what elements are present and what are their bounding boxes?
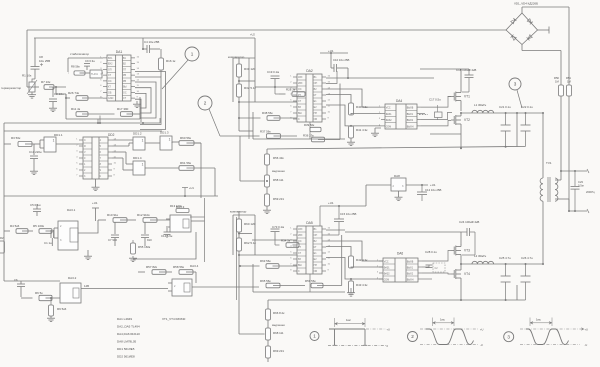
svg-text:ВЫХВ: ВЫХВ xyxy=(407,108,414,110)
ground DA1 pin xyxy=(136,101,138,102)
wire return rail y147 xyxy=(267,146,526,149)
resistor R6 xyxy=(39,295,52,300)
wire DA2 bottom stubs xyxy=(309,122,311,139)
resistor R61 xyxy=(179,166,194,171)
svg-text:ОП: ОП xyxy=(314,82,318,85)
svg-text:C24 100нФ 2кВ: C24 100нФ 2кВ xyxy=(459,220,479,224)
svg-text:R4 5к6: R4 5к6 xyxy=(10,224,20,228)
resistor R17 xyxy=(121,112,133,117)
svg-text:DA4,DA6 IR2110: DA4,DA6 IR2110 xyxy=(117,332,140,336)
wire return rail y298 xyxy=(268,299,526,301)
waveform 1 circle xyxy=(310,332,319,341)
wire chain drop x268 xyxy=(267,300,269,309)
svg-text:ВЫ: ВЫ xyxy=(298,264,302,267)
pwm controller DA5 DIP xyxy=(297,226,322,274)
svg-text:СТ: СТ xyxy=(123,97,127,100)
output terminal top xyxy=(587,169,589,173)
svg-text:ВЫ: ВЫ xyxy=(298,112,302,115)
svg-text:DA2_DA5 TL494: DA2_DA5 TL494 xyxy=(117,325,140,329)
wire DA1 bus loop 2 xyxy=(135,77,161,125)
svg-text:L1 30мГн: L1 30мГн xyxy=(474,103,487,107)
svg-text:VT4: VT4 xyxy=(464,272,470,276)
svg-text:C23: C23 xyxy=(578,180,583,184)
resistor R28 xyxy=(292,92,305,97)
svg-text:+U: +U xyxy=(387,328,391,332)
svg-text:ОП: ОП xyxy=(314,234,318,237)
wire comparator2 inner rail xyxy=(236,217,238,300)
resistor R16 xyxy=(160,49,162,58)
bootstrap box DA4 xyxy=(435,112,443,118)
svg-text:TV1: TV1 xyxy=(546,161,552,165)
resistor R10 xyxy=(113,218,127,223)
resistor R42 xyxy=(326,247,351,257)
wire DA3.1 out xyxy=(78,220,98,233)
svg-text:медленно: медленно xyxy=(272,169,285,173)
ground under R55 xyxy=(132,256,134,258)
svg-text:+U1: +U1 xyxy=(430,183,436,187)
logic gate DD1.2 xyxy=(133,137,145,150)
resistor R62 xyxy=(237,238,242,251)
svg-text:L2 30мГн: L2 30мГн xyxy=(474,254,487,258)
resistor R30 xyxy=(237,64,242,77)
svg-text:R34 3к: R34 3к xyxy=(281,239,291,243)
wire bridge top to rail xyxy=(521,7,523,13)
resistor R37 xyxy=(267,134,281,139)
wire x249 drop xyxy=(248,58,250,139)
resistor R68 xyxy=(267,320,269,328)
svg-text:ОБ: ОБ xyxy=(108,91,112,94)
wire DD1.2 out xyxy=(145,142,160,144)
svg-text:1мс: 1мс xyxy=(536,318,541,322)
wire output y113 xyxy=(461,112,543,114)
wire R50 down to out1 xyxy=(560,96,562,171)
svg-text:C1 1н: C1 1н xyxy=(44,241,52,245)
svg-text:R8 56к: R8 56к xyxy=(71,65,80,69)
svg-text:C12 10u 25В: C12 10u 25В xyxy=(425,188,441,192)
svg-text:DA5: DA5 xyxy=(306,221,313,225)
wire VT1 gate xyxy=(448,96,451,99)
resistor R32 xyxy=(237,84,242,97)
resistor R12 xyxy=(143,218,157,223)
svg-text:ВЫХ2: ВЫХ2 xyxy=(407,274,414,276)
wire DA6 to VT4 gate xyxy=(422,273,451,274)
svg-text:TL431: TL431 xyxy=(91,73,98,76)
wire R51 down to out2 xyxy=(568,96,570,211)
wire output mid drop x517 xyxy=(516,113,518,147)
wire DA4 to VT2 gate xyxy=(421,121,451,126)
capacitor C10 xyxy=(333,64,335,72)
svg-text:DD1 561ЛЕ5: DD1 561ЛЕ5 xyxy=(117,347,135,351)
waveform 2 circle xyxy=(408,332,418,342)
svg-text:COM: COM xyxy=(384,280,389,282)
svg-text:VCC: VCC xyxy=(386,108,391,110)
svg-text:C10 10u 25В: C10 10u 25В xyxy=(333,58,349,62)
wire bus y123 xyxy=(4,122,160,124)
svg-text:стабилизатор: стабилизатор xyxy=(70,52,89,56)
svg-text:VT2: VT2 xyxy=(464,118,470,122)
svg-text:2ВХ: 2ВХ xyxy=(298,82,303,85)
capacitor C2 xyxy=(52,87,54,97)
svg-text:+U1: +U1 xyxy=(189,186,194,190)
svg-text:ОС: ОС xyxy=(298,88,302,91)
wire inner top rail xyxy=(34,37,255,39)
wire top rail +310V to bridge xyxy=(27,29,506,31)
svg-text:DA1: DA1 xyxy=(116,50,123,54)
resistor R58 xyxy=(266,165,268,175)
wire regulator feed xyxy=(365,185,367,206)
svg-text:R68 111: R68 111 xyxy=(273,331,284,335)
svg-text:VT1: VT1 xyxy=(464,95,470,99)
resistor R51 xyxy=(567,85,572,96)
svg-text:R9 5к6: R9 5к6 xyxy=(57,307,67,311)
resistor R65 xyxy=(266,283,280,288)
svg-text:DA1 L4949: DA1 L4949 xyxy=(117,317,132,321)
wire DA1 bus loop 5 xyxy=(135,93,146,108)
waveform 3 circle xyxy=(504,332,514,342)
svg-text:медленно: медленно xyxy=(272,323,285,327)
resistor R59b xyxy=(311,283,323,288)
wire x201 drop xyxy=(200,143,202,198)
svg-text:ВХ2: ВХ2 xyxy=(108,63,113,66)
wire section border y196 xyxy=(4,195,218,197)
svg-text:R57 82к: R57 82к xyxy=(146,265,158,269)
svg-text:R60 56к: R60 56к xyxy=(180,136,192,140)
svg-text:VCC: VCC xyxy=(384,262,389,264)
svg-text:R55 160к: R55 160к xyxy=(138,245,151,249)
capacitor C13 xyxy=(33,144,35,155)
op-amp U DA1 DIP xyxy=(107,55,131,101)
svg-text:C17 0.5u: C17 0.5u xyxy=(429,98,441,102)
svg-text:СТ: СТ xyxy=(298,100,302,103)
wire C4 feed xyxy=(142,38,144,49)
resistor R50 xyxy=(559,85,564,96)
svg-text:R12 910к: R12 910к xyxy=(137,213,150,217)
svg-text:ВЫХН: ВЫХН xyxy=(407,126,414,128)
callout pointer 3 xyxy=(517,90,522,108)
svg-text:R17 390: R17 390 xyxy=(117,107,129,111)
ground under DA3.1 xyxy=(87,250,89,254)
svg-text:ОС: ОС xyxy=(123,91,127,94)
svg-text:1мс: 1мс xyxy=(346,318,351,322)
resistor R34 xyxy=(286,243,299,248)
wire saw drop x240 xyxy=(239,136,241,181)
svg-text:ВЫХ1: ВЫХ1 xyxy=(407,114,414,116)
svg-text:R61 56к: R61 56к xyxy=(180,161,192,165)
svg-text:C4 10н 25В: C4 10н 25В xyxy=(144,40,159,44)
svg-text:COM: COM xyxy=(386,126,391,128)
svg-text:R38 56к: R38 56к xyxy=(262,111,273,115)
svg-text:2: 2 xyxy=(204,101,207,106)
svg-text:R3 56к: R3 56к xyxy=(11,136,21,140)
svg-text:VT3: VT3 xyxy=(464,249,470,253)
svg-text:DD2: DD2 xyxy=(108,133,115,137)
callout pointer 1 xyxy=(162,60,188,89)
wire mid node xyxy=(460,103,462,111)
svg-text:ОП: ОП xyxy=(108,68,112,71)
wire comparator chain xyxy=(238,58,240,64)
svg-text:ФАЗ2: ФАЗ2 xyxy=(386,119,393,122)
resistor R13 xyxy=(176,209,189,213)
wire secondary top xyxy=(555,179,561,181)
wire DA6 pin y280 stub xyxy=(422,278,432,280)
svg-text:ФАЗ2: ФАЗ2 xyxy=(384,273,391,276)
svg-text:R42 4.3к: R42 4.3к xyxy=(356,258,368,262)
wire DA2 pin to DA4 pin1 xyxy=(326,89,381,107)
resistor R59 xyxy=(266,187,268,194)
svg-text:C73 0.1м: C73 0.1м xyxy=(272,225,284,229)
resistor R56 xyxy=(266,149,268,154)
resistor R58a xyxy=(179,270,193,275)
thermistor RK1 xyxy=(29,82,35,92)
svg-text:+U2: +U2 xyxy=(250,33,255,37)
svg-text:DD1.3: DD1.3 xyxy=(160,131,169,135)
transistor VT3 xyxy=(451,250,454,252)
resistor R38 xyxy=(267,116,280,121)
wire chain down xyxy=(238,102,240,131)
svg-text:терморезистор: терморезистор xyxy=(1,86,22,90)
ground under C13 xyxy=(33,169,35,171)
svg-text:1: 1 xyxy=(169,137,171,141)
svg-text:ОС: ОС xyxy=(108,80,112,83)
pwm controller DA2 DIP xyxy=(297,74,322,122)
svg-text:РВ: РВ xyxy=(123,74,127,77)
resistor R41 xyxy=(350,125,352,127)
svg-text:C15 10u 25В: C15 10u 25В xyxy=(340,212,356,216)
wire DD1.3 to R60 xyxy=(172,141,179,143)
logic gate DD1.1 xyxy=(44,137,56,152)
transistor VT2 xyxy=(451,119,454,121)
wire feedback DA3.3 xyxy=(133,232,196,259)
svg-text:VT1_VT4 IRF840: VT1_VT4 IRF840 xyxy=(162,317,186,321)
wire DA1 pin16 drop xyxy=(135,99,141,122)
transistor VT4 xyxy=(451,273,454,275)
svg-text:1: 1 xyxy=(142,138,144,142)
svg-text:DA3.1: DA3.1 xyxy=(67,208,76,212)
resistor R5 xyxy=(39,229,52,234)
svg-text:R40 4.3к: R40 4.3к xyxy=(356,105,368,109)
power stub on y196 xyxy=(182,187,188,189)
svg-text:R59 231: R59 231 xyxy=(273,197,284,201)
svg-text:R13 100к: R13 100к xyxy=(170,204,183,208)
wire stabilizer top xyxy=(68,57,103,59)
wire left rail xyxy=(3,123,5,196)
svg-text:ФАЗ1: ФАЗ1 xyxy=(386,113,393,116)
svg-text:R56 43к: R56 43к xyxy=(273,156,284,160)
svg-text:DA2: DA2 xyxy=(306,69,313,73)
resistor R60 xyxy=(179,141,194,146)
svg-text:R: R xyxy=(84,145,86,148)
callout circle 1 xyxy=(185,47,199,61)
svg-text:DA3.4: DA3.4 xyxy=(190,264,199,268)
svg-text:R26 74к: R26 74к xyxy=(68,91,80,95)
svg-text:R11 4к: R11 4к xyxy=(71,107,81,111)
svg-text:R65 56к: R65 56к xyxy=(260,279,271,283)
node bus junction xyxy=(99,116,101,124)
resistor R11 xyxy=(76,112,88,117)
svg-text:ВХ: ВХ xyxy=(298,106,301,109)
wire x255 drop xyxy=(254,38,256,102)
svg-text:C5 0.1м: C5 0.1м xyxy=(30,203,41,207)
wire x215 drop xyxy=(214,168,216,196)
svg-text:R69 231: R69 231 xyxy=(273,349,284,353)
capacitor C8 xyxy=(31,66,40,68)
svg-text:ОБ: ОБ xyxy=(314,118,318,121)
resistor R43 xyxy=(350,279,352,281)
svg-text:R51: R51 xyxy=(566,76,571,80)
wire primary bottom xyxy=(542,201,544,264)
svg-text:1ВХ: 1ВХ xyxy=(298,228,303,231)
wire y255 to DA5 xyxy=(239,254,297,256)
wire y87 to DA2 xyxy=(255,86,297,88)
wire DA1 bus loop 3 xyxy=(135,82,156,118)
svg-text:910: 910 xyxy=(147,238,152,242)
wire DA3.3 out xyxy=(191,220,205,222)
svg-text:C6: C6 xyxy=(14,278,18,282)
wire R61 to x215 xyxy=(187,167,216,169)
svg-text:R5 100к: R5 100к xyxy=(33,224,45,228)
svg-text:ПТ: ПТ xyxy=(123,68,127,71)
capacitor C11 xyxy=(144,222,146,234)
svg-text:DA3.2: DA3.2 xyxy=(68,276,77,280)
svg-text:1: 1 xyxy=(313,334,316,339)
ground under DD2 xyxy=(95,179,97,185)
svg-text:2ВХ: 2ВХ xyxy=(298,234,303,237)
svg-text:ВЫХ1: ВЫХ1 xyxy=(407,268,414,270)
svg-text:компаратор: компаратор xyxy=(228,55,245,59)
svg-text:ВЫХН: ВЫХН xyxy=(407,280,414,282)
wire comparator1 left edge xyxy=(232,58,234,102)
svg-text:2000Гц: 2000Гц xyxy=(586,190,595,194)
svg-text:R39 56к: R39 56к xyxy=(304,123,315,127)
svg-text:1: 1 xyxy=(142,162,144,166)
svg-text:ОБ: ОБ xyxy=(314,270,318,273)
wire riser x204 xyxy=(204,198,206,262)
wire bus stub xyxy=(97,119,99,123)
svg-text:PB: PB xyxy=(123,80,127,83)
wire secondary bottom xyxy=(555,198,569,200)
wire DD2 to DD1.2 xyxy=(112,139,133,141)
svg-text:DD1.2: DD1.2 xyxy=(133,132,142,136)
callout circle 3 xyxy=(509,78,521,90)
svg-text:СТ: СТ xyxy=(298,252,302,255)
svg-text:+U1: +U1 xyxy=(92,201,98,205)
svg-text:R50: R50 xyxy=(554,76,559,80)
resistor R69 xyxy=(267,340,269,346)
wire DA2 out rail y78 xyxy=(326,77,434,79)
svg-text:2: 2 xyxy=(411,334,414,339)
wire DA8 out xyxy=(406,184,428,186)
wire DD2 to DD1.4 xyxy=(112,151,126,153)
svg-text:C28 0.1u: C28 0.1u xyxy=(425,250,437,254)
logic gate DD1.3 xyxy=(160,136,172,150)
wire y102 to DA2 xyxy=(239,101,297,103)
resistor R57 xyxy=(152,270,166,275)
wire VT2 source down xyxy=(460,127,462,150)
svg-text:С: С xyxy=(84,139,86,142)
svg-text:R2: R2 xyxy=(0,236,4,240)
svg-text:1мс: 1мс xyxy=(440,318,445,322)
svg-text:R16 1к: R16 1к xyxy=(166,59,176,63)
svg-text:C25 4.7u: C25 4.7u xyxy=(499,256,511,260)
wire DD1.4 to R61 xyxy=(145,167,179,169)
wire right rail x569 xyxy=(568,7,570,85)
resistor R66 xyxy=(266,309,271,320)
callout pointer 2 xyxy=(209,109,220,136)
wire DA1 bus loop 1 xyxy=(135,72,166,130)
wire DA4 out to VT1 gate xyxy=(421,97,451,108)
svg-text:VD1_VD4 КД226Б: VD1_VD4 КД226Б xyxy=(514,2,538,6)
ground DA4 xyxy=(374,128,376,131)
svg-text:C26 4.7u: C26 4.7u xyxy=(521,256,533,260)
svg-text:R37 56к: R37 56к xyxy=(260,130,271,134)
svg-text:R43 4.3к: R43 4.3к xyxy=(356,283,368,287)
svg-text:ПН: ПН xyxy=(314,112,318,115)
svg-text:DD1.4: DD1.4 xyxy=(133,156,142,160)
wire VT3 drain rail xyxy=(345,231,461,233)
wire bus y131 xyxy=(4,130,162,132)
wire R60 to x201 xyxy=(187,142,202,144)
svg-text:ПН: ПН xyxy=(314,264,318,267)
snubber dashed box xyxy=(433,263,445,272)
wire mid drop x517 bottom xyxy=(516,285,518,300)
wire VT1 drain rail xyxy=(420,68,461,70)
node A xyxy=(55,86,57,88)
wire DA3.4 out row xyxy=(273,285,305,287)
svg-text:ВЫХ2: ВЫХ2 xyxy=(407,120,414,122)
svg-text:ВХ: ВХ xyxy=(298,258,301,261)
svg-text:R58 56к: R58 56к xyxy=(173,265,185,269)
svg-text:R66 8.2к: R66 8.2к xyxy=(273,311,285,315)
wire y134 DA4 return xyxy=(430,133,461,135)
ground under R9 xyxy=(50,316,52,318)
ground under DA8 xyxy=(398,191,400,195)
capacitor C4 xyxy=(146,45,148,53)
counter DD2 xyxy=(83,137,108,179)
resistor R7 xyxy=(44,85,54,90)
svg-text:+U: +U xyxy=(585,327,589,331)
wire DA5 out rail xyxy=(326,229,345,231)
wire R60 R62 junction xyxy=(239,233,252,235)
capacitor C15 xyxy=(338,205,340,207)
callout circle 2 xyxy=(198,96,212,110)
wire DA2 pin to DA4 pin3 xyxy=(326,105,381,126)
svg-text:+U1: +U1 xyxy=(328,201,334,205)
wire block bottom y139 xyxy=(253,138,345,140)
ground under R43 xyxy=(350,288,352,291)
svg-text:1: 1 xyxy=(191,52,194,57)
svg-text:R60 120: R60 120 xyxy=(244,222,256,226)
svg-text:ОС: ОС xyxy=(298,240,302,243)
ground under C2 xyxy=(52,106,54,108)
wire top into DA3.2 xyxy=(3,196,5,281)
svg-text:R62 5.1к: R62 5.1к xyxy=(244,241,257,245)
wire bridge bottom xyxy=(521,45,523,51)
svg-text:R59 56к: R59 56к xyxy=(305,279,316,283)
resistor R3 xyxy=(18,142,32,147)
svg-text:R6 5к: R6 5к xyxy=(35,291,43,295)
capacitor C1 xyxy=(50,230,52,238)
svg-text:компаратор: компаратор xyxy=(230,210,247,214)
svg-text:R58 111: R58 111 xyxy=(273,178,284,182)
wire comparator2 frame xyxy=(233,214,255,216)
svg-text:C22 0.1u: C22 0.1u xyxy=(521,105,533,109)
ground under R59 xyxy=(266,206,268,208)
wire DA4 y114 stub xyxy=(421,112,425,114)
resistor R60b xyxy=(237,219,242,232)
wire R36 riser xyxy=(339,84,341,140)
svg-text:R7 10к: R7 10к xyxy=(41,80,51,84)
wire DA1 bus loop 4 xyxy=(135,88,151,113)
